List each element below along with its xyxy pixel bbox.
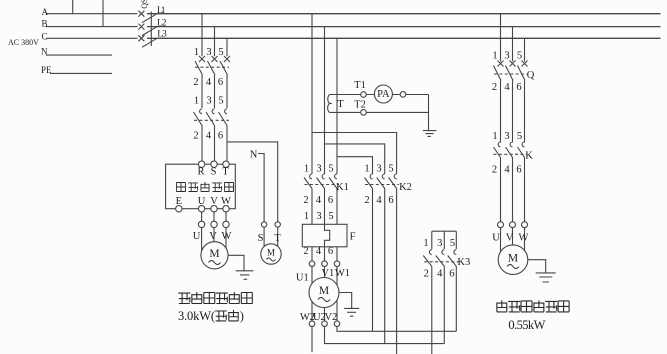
svg-text:S: S — [258, 233, 264, 244]
svg-text:AC 380V: AC 380V — [8, 38, 39, 47]
svg-text:1: 1 — [194, 96, 199, 107]
svg-text:N: N — [41, 46, 48, 56]
svg-text:PA: PA — [377, 89, 390, 100]
svg-text:3: 3 — [206, 96, 211, 107]
svg-text:T1: T1 — [354, 80, 366, 91]
svg-text:Q: Q — [527, 70, 535, 81]
svg-text:E: E — [176, 196, 182, 207]
svg-text:V1: V1 — [321, 268, 334, 279]
svg-text:6: 6 — [328, 246, 333, 257]
svg-text:1: 1 — [304, 164, 309, 175]
svg-text:5: 5 — [328, 211, 333, 222]
svg-text:4: 4 — [437, 269, 443, 280]
svg-text:F: F — [350, 232, 356, 243]
svg-text:T: T — [337, 99, 344, 110]
svg-text:1: 1 — [492, 51, 497, 62]
svg-text:3: 3 — [316, 164, 321, 175]
svg-text:T: T — [274, 233, 281, 244]
svg-text:QS: QS — [140, 0, 149, 9]
svg-text:V: V — [210, 196, 218, 207]
svg-text:L1: L1 — [157, 6, 166, 16]
svg-text:5: 5 — [328, 164, 333, 175]
svg-text:W1: W1 — [335, 268, 350, 279]
svg-text:1: 1 — [492, 131, 497, 142]
svg-text:B: B — [42, 19, 48, 29]
svg-text:3: 3 — [316, 211, 321, 222]
svg-text:R: R — [197, 167, 204, 178]
svg-text:6: 6 — [328, 195, 333, 206]
svg-text:4: 4 — [206, 131, 212, 142]
svg-text:4: 4 — [504, 82, 510, 93]
svg-text:): ) — [240, 309, 244, 323]
svg-text:V2: V2 — [324, 312, 337, 323]
svg-text:0.55kW: 0.55kW — [508, 318, 545, 332]
svg-text:3: 3 — [437, 238, 442, 249]
svg-text:M: M — [267, 248, 275, 258]
svg-text:L2: L2 — [157, 19, 167, 29]
svg-text:K: K — [525, 151, 533, 162]
svg-text:5: 5 — [218, 47, 223, 58]
svg-text:6: 6 — [218, 131, 223, 142]
svg-text:L3: L3 — [157, 29, 167, 39]
svg-text:T: T — [222, 167, 229, 178]
svg-text:2: 2 — [492, 165, 497, 176]
svg-text:2: 2 — [303, 195, 308, 206]
svg-text:5: 5 — [450, 238, 455, 249]
svg-text:M: M — [319, 285, 329, 297]
svg-text:2: 2 — [364, 195, 369, 206]
svg-text:2: 2 — [424, 269, 429, 280]
svg-text:6: 6 — [516, 165, 521, 176]
svg-text:W: W — [519, 233, 529, 244]
svg-text:2: 2 — [492, 82, 497, 93]
svg-text:1: 1 — [194, 47, 199, 58]
svg-text:PE: PE — [41, 65, 52, 75]
svg-text:T2: T2 — [354, 100, 366, 111]
svg-text:W: W — [221, 196, 231, 207]
svg-text:N: N — [250, 150, 258, 161]
svg-text:5: 5 — [517, 51, 522, 62]
svg-text:M: M — [508, 253, 518, 265]
svg-text:6: 6 — [516, 82, 521, 93]
svg-text:K3: K3 — [457, 257, 470, 268]
svg-text:4: 4 — [504, 165, 510, 176]
svg-text:C: C — [42, 32, 48, 42]
svg-text:V: V — [209, 231, 217, 242]
svg-text:M: M — [209, 248, 219, 260]
svg-text:5: 5 — [517, 131, 522, 142]
svg-text:K1: K1 — [336, 182, 349, 193]
svg-text:3: 3 — [376, 164, 381, 175]
svg-text:6: 6 — [388, 195, 393, 206]
svg-text:S: S — [211, 167, 217, 178]
svg-text:3.0kW(: 3.0kW( — [178, 309, 215, 323]
svg-text:V: V — [506, 233, 514, 244]
svg-text:U: U — [198, 196, 206, 207]
svg-text:4: 4 — [316, 195, 322, 206]
svg-text:K2: K2 — [399, 182, 412, 193]
svg-text:1: 1 — [304, 211, 309, 222]
svg-text:5: 5 — [388, 164, 393, 175]
svg-text:A: A — [42, 7, 49, 17]
svg-text:3: 3 — [504, 131, 509, 142]
svg-text:3: 3 — [206, 47, 211, 58]
svg-text:4: 4 — [206, 77, 212, 88]
svg-text:4: 4 — [376, 195, 382, 206]
svg-text:2: 2 — [193, 131, 198, 142]
svg-text:U1: U1 — [296, 273, 309, 284]
svg-text:6: 6 — [449, 269, 454, 280]
svg-text:U: U — [492, 233, 500, 244]
svg-text:4: 4 — [316, 246, 322, 257]
svg-text:5: 5 — [218, 96, 223, 107]
svg-text:W: W — [222, 231, 232, 242]
svg-text:1: 1 — [423, 238, 428, 249]
svg-text:6: 6 — [218, 77, 223, 88]
svg-text:1: 1 — [364, 164, 369, 175]
svg-text:U: U — [193, 231, 201, 242]
svg-text:2: 2 — [303, 246, 308, 257]
svg-text:2: 2 — [193, 77, 198, 88]
svg-text:3: 3 — [504, 51, 509, 62]
